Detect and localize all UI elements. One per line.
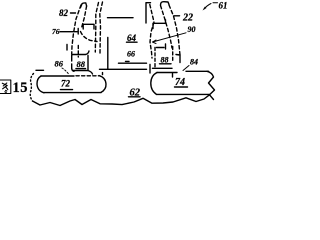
- drain region 74 bottom edge: [157, 93, 210, 95]
- svg-text:82: 82: [59, 8, 69, 18]
- small dash above trench floor: [126, 60, 130, 62]
- svg-text:66: 66: [127, 49, 135, 58]
- substrate left dotted brace: [30, 74, 33, 102]
- spacer finger R1 right edge: [150, 5, 154, 59]
- substrate bottom-right tail: [210, 95, 214, 100]
- gate post R (solid): [146, 3, 151, 23]
- arrow tick for 90 leader: [153, 40, 157, 44]
- trench floor upper line: [119, 62, 147, 64]
- box left BR tail: [88, 71, 93, 75]
- hook at bottom of R2: [176, 55, 180, 63]
- leader for 84: [183, 66, 189, 71]
- label 72: [61, 79, 71, 89]
- short dash left of fingers: [66, 45, 68, 51]
- substrate right jagged edge: [207, 71, 215, 95]
- underline 62: [129, 96, 141, 98]
- caption glyph 图: [0, 80, 11, 94]
- spacer finger R2 left edge: [161, 6, 173, 49]
- label 64: [127, 33, 137, 43]
- gate bracket (right): [153, 20, 166, 29]
- label 61: [219, 1, 228, 11]
- underline 88 right: [160, 63, 172, 65]
- dashlet at 76 leader tip: [77, 29, 79, 35]
- label 84: [190, 58, 198, 67]
- gate remnant bracket (left): [83, 24, 94, 29]
- label 62: [130, 88, 141, 99]
- dashlet above right box: [165, 44, 167, 49]
- ILD top surface line: [108, 17, 134, 19]
- svg-text:72: 72: [61, 79, 71, 89]
- contact box right: top dash: [157, 47, 165, 49]
- trench left wall: [107, 38, 109, 70]
- spacer finger R2 right edge: [169, 5, 180, 55]
- leader for 22: [174, 15, 180, 17]
- source region 72 (stadium outline): [41, 75, 74, 77]
- svg-text:86: 86: [55, 59, 64, 69]
- device arrow 61: [204, 4, 211, 10]
- dashed vertical above left box: [77, 46, 79, 58]
- box left BL tail: [72, 69, 74, 72]
- svg-text:22: 22: [182, 12, 193, 23]
- spacer finger L1 right edge: [82, 6, 87, 28]
- step line right tick: [172, 74, 174, 78]
- label 76: [52, 27, 60, 36]
- spacer finger L1 bottom swoop: [81, 32, 98, 42]
- contact box left (outline): [72, 51, 89, 61]
- spacer finger R2 top cap: [161, 2, 170, 5]
- leader for 86: [62, 68, 69, 75]
- svg-text:90: 90: [188, 25, 196, 34]
- svg-text:88: 88: [77, 59, 86, 69]
- trench floor lower line: [100, 68, 147, 70]
- svg-text:76: 76: [52, 27, 60, 36]
- trench-to-substrate step line: [153, 67, 173, 69]
- label 74: [175, 77, 185, 88]
- underline 88 left: [76, 68, 86, 70]
- label 66: [127, 49, 135, 58]
- leader for 76: [60, 31, 77, 33]
- underline 72: [61, 89, 73, 91]
- contact box right: left edge: [154, 48, 156, 70]
- substrate top-left notch: [36, 69, 44, 71]
- drain region 74 left cap: [151, 73, 157, 95]
- drain region 74 top edge: [157, 72, 177, 74]
- svg-text:61: 61: [219, 1, 228, 11]
- svg-text:84: 84: [190, 58, 198, 67]
- substrate wavy bottom edge: [33, 95, 210, 106]
- label 88 (right box): [161, 56, 169, 65]
- label 22: [182, 12, 193, 23]
- substrate top right line: [186, 70, 209, 72]
- underline 74: [175, 86, 188, 88]
- spacer finger L1 top cap: [81, 3, 87, 8]
- caption text 15: [13, 80, 29, 96]
- underline 64: [127, 41, 138, 43]
- spacer finger L2 right edge: [100, 2, 103, 53]
- label 82: [59, 8, 69, 18]
- label 90: [188, 25, 196, 34]
- label 88 (left box): [77, 59, 86, 69]
- trench right wall: [149, 65, 151, 74]
- leader for 90: [153, 33, 187, 42]
- spacer finger L1 left edge: [72, 5, 81, 54]
- svg-text:64: 64: [127, 33, 137, 43]
- spacer finger L2 left edge: [95, 3, 98, 53]
- leader for 82: [71, 12, 76, 14]
- svg-text:15: 15: [13, 80, 29, 96]
- contact box right: right edge: [172, 47, 174, 63]
- small tick below floor left: [102, 73, 104, 75]
- label 86: [55, 59, 64, 69]
